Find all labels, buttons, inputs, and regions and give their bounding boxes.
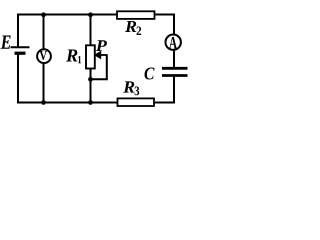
potentiometer wiper arrow P: [94, 51, 108, 60]
node bottom wire / voltmeter: [41, 100, 46, 105]
node top wire / R1: [88, 12, 93, 17]
node wiper tie on R1 lead: [88, 77, 93, 82]
voltmeter letter V: [40, 51, 48, 60]
node top wire / voltmeter: [41, 12, 46, 17]
label R3 (R): [123, 81, 134, 92]
label R3 (subscript 3): [135, 87, 140, 96]
wire R1 branch bottom: [90, 69, 92, 103]
label R1 (R): [66, 50, 78, 62]
wire right middle segment (ammeter to capacitor): [173, 49, 175, 67]
wire voltmeter branch top: [43, 15, 45, 51]
label E: [1, 36, 11, 49]
wire top right segment: [155, 15, 175, 36]
ammeter letter A: [169, 37, 177, 49]
label P: [96, 40, 107, 51]
battery E: [11, 47, 30, 53]
label C: [145, 68, 155, 80]
resistor R1 (rheostat body): [86, 45, 95, 68]
label R2 (R): [125, 21, 136, 32]
wire bottom left segment: [18, 54, 118, 103]
capacitor C: [162, 68, 188, 75]
node bottom wire / R1: [88, 100, 93, 105]
resistor R3: [118, 98, 155, 106]
label R1 (subscript 1): [78, 56, 81, 63]
resistor R2: [117, 11, 155, 19]
wire R1 branch top: [90, 15, 92, 46]
voltmeter V: [37, 49, 51, 63]
label R2 (subscript 2): [137, 27, 142, 36]
ammeter A: [166, 35, 181, 50]
wire bottom right segment: [154, 76, 174, 103]
wire wiper return (P slider to R1 bottom lead): [91, 55, 107, 80]
wire top left segment: [18, 15, 117, 47]
wire voltmeter branch bottom: [43, 62, 45, 102]
